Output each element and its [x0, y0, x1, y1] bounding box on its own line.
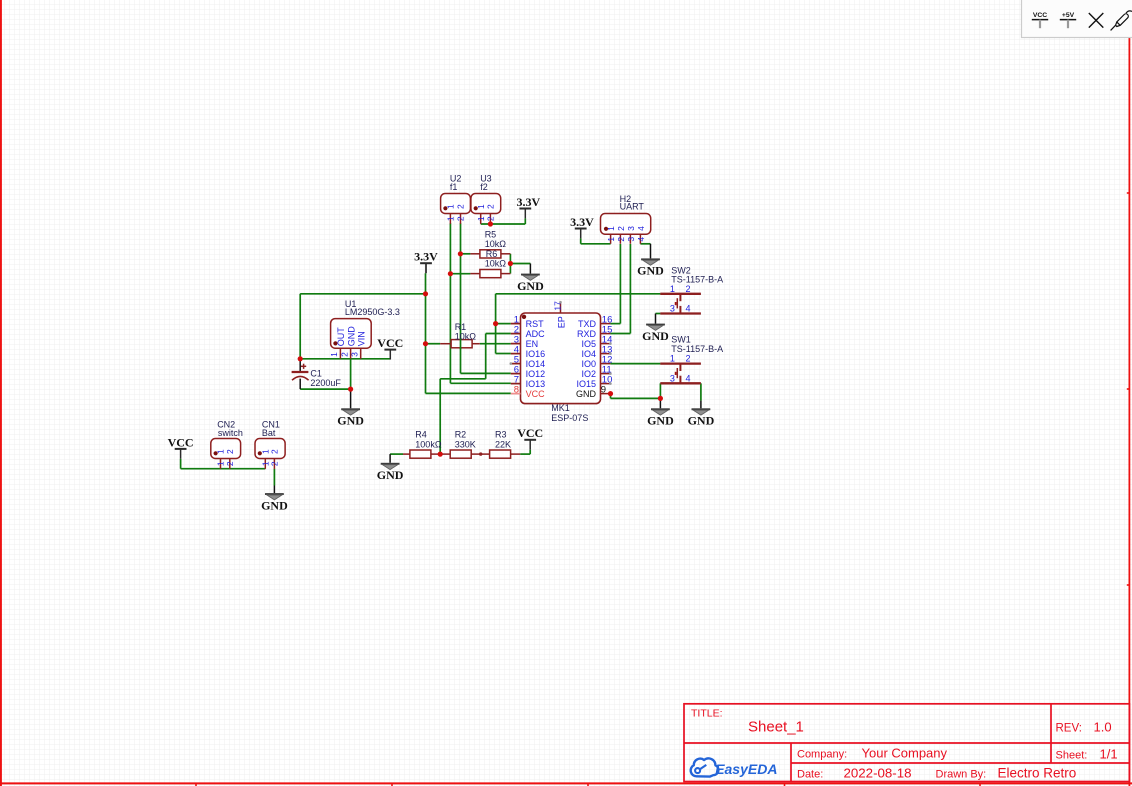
CN1 labels [262, 420, 280, 439]
ground at R5R6 [517, 274, 544, 293]
svg-text:Date:: Date: [797, 769, 823, 781]
lead SW1 left GND [659, 398, 661, 408]
svg-text:ESP-07S: ESP-07S [551, 413, 588, 423]
svg-text:3: 3 [626, 226, 636, 231]
SW2 pin numbers [670, 284, 691, 314]
svg-text:SW1: SW1 [671, 335, 691, 345]
H2 pin numbers outside [606, 237, 646, 242]
svg-text:RST: RST [526, 319, 545, 329]
svg-text:IO15: IO15 [576, 379, 596, 389]
svg-text:2: 2 [456, 216, 466, 221]
svg-text:EN: EN [526, 339, 539, 349]
svg-text:GND: GND [642, 329, 669, 343]
svg-text:GND: GND [688, 414, 715, 428]
U2 labels [450, 174, 462, 193]
svg-text:2: 2 [486, 216, 496, 221]
wire ESP IO0 pin 12 to SW1 pin 1 [610, 363, 660, 365]
svg-text:3.3V: 3.3V [414, 250, 438, 264]
C1 labels [310, 368, 341, 388]
MK1 left pin names [526, 319, 546, 399]
wire R5/R6 right vertical [509, 254, 511, 274]
lead SW2 GND [655, 314, 657, 324]
ground at R4 [377, 463, 404, 482]
U1 pin numbers 1 2 3 [329, 352, 359, 357]
svg-text:Sheet_1: Sheet_1 [748, 718, 804, 735]
svg-text:3.3V: 3.3V [516, 195, 540, 209]
svg-text:Your Company: Your Company [862, 746, 948, 761]
junction at R5 left [458, 251, 463, 256]
wire ESP GND to SW1 GND node [611, 397, 661, 399]
svg-text:10kΩ: 10kΩ [485, 239, 507, 249]
svg-text:4: 4 [685, 304, 690, 314]
wire 3.3V rail horizontal to U1 column [300, 293, 425, 295]
svg-text:GND: GND [576, 389, 597, 399]
svg-text:IO13: IO13 [526, 379, 546, 389]
junction 3.3V rail top [423, 291, 428, 296]
R4 labels [415, 430, 442, 450]
svg-text:REV:: REV: [1056, 722, 1082, 734]
svg-text:TXD: TXD [578, 319, 597, 329]
svg-text:2: 2 [486, 204, 496, 209]
svg-text:1.0: 1.0 [1094, 719, 1112, 734]
wire ESP ADC pin 2 branch [486, 333, 511, 335]
wire 3.3V flag to U3 [481, 223, 526, 225]
svg-text:1: 1 [670, 284, 675, 294]
junction at ESP GND pin9 [608, 391, 613, 396]
connector CN2 switch [211, 439, 241, 469]
wire R5 left [461, 253, 471, 255]
svg-text:2022-08-18: 2022-08-18 [844, 766, 912, 781]
svg-text:3: 3 [670, 304, 675, 314]
H2 pin numbers inside [606, 226, 646, 231]
lead CN1 GND [273, 486, 275, 494]
wire R6 left [450, 273, 470, 275]
svg-text:2: 2 [616, 237, 626, 242]
svg-text:f2: f2 [480, 182, 488, 192]
svg-text:IO14: IO14 [526, 359, 546, 369]
toolbar pencil icon [1111, 11, 1132, 31]
resistor R1 10k [440, 340, 480, 348]
wire VCC flag to CN2 [180, 459, 182, 469]
ground at SW1 right [688, 408, 715, 427]
wire to ESP IO16 pin 4 [496, 353, 511, 355]
svg-text:GND: GND [337, 414, 364, 428]
svg-text:Sheet:: Sheet: [1056, 750, 1088, 762]
lead C1 bottom [299, 379, 301, 390]
svg-text:1: 1 [606, 226, 616, 231]
resistor R4 100k [403, 450, 440, 458]
wire H2 pin 4 to GND [640, 243, 650, 245]
svg-text:EasyEDA: EasyEDA [715, 761, 777, 777]
SW1 labels [671, 335, 723, 355]
svg-text:Bat: Bat [262, 428, 276, 438]
SW1 pin numbers [670, 354, 691, 384]
ground at SW1 left [647, 408, 674, 427]
toolbar panel [1022, 0, 1132, 38]
svg-text:EP: EP [556, 316, 566, 328]
wire SW2 pin 3 stub [656, 313, 661, 315]
svg-text:4: 4 [636, 237, 646, 242]
svg-text:GND: GND [377, 468, 404, 482]
svg-text:ADC: ADC [526, 329, 546, 339]
revision [1056, 719, 1112, 734]
voltage regulator U1 LM2950G-3.3 [331, 319, 372, 359]
wire 3.3V flag drop left [425, 273, 427, 294]
toolbar VCC icon [1032, 12, 1048, 28]
lead R5R6 GND [529, 264, 531, 274]
svg-text:1: 1 [446, 216, 456, 221]
svg-text:UART: UART [620, 202, 645, 212]
svg-text:2: 2 [225, 449, 235, 454]
svg-text:IO5: IO5 [581, 339, 596, 349]
wire U1 output row [300, 358, 390, 360]
svg-text:3: 3 [670, 373, 675, 383]
ground at CN1 [261, 493, 288, 512]
junction at U1 output [298, 356, 303, 361]
svg-text:VCC: VCC [377, 336, 403, 350]
H2 labels [620, 194, 645, 212]
power flag VCC at CN2 [168, 435, 194, 459]
wire R4 left to GND corner [390, 453, 403, 455]
wire U1 column vertical [299, 294, 301, 359]
svg-text:VCC: VCC [168, 435, 194, 449]
svg-text:GND: GND [647, 414, 674, 428]
svg-text:GND: GND [346, 326, 356, 347]
svg-text:TS-1157-B-A: TS-1157-B-A [671, 344, 723, 354]
power flag 3.3V left [414, 250, 438, 274]
wire to ESP IO13 pin 7 [450, 382, 510, 384]
wire 3.3V flag to H2 pin 1 [580, 238, 582, 243]
wire R5/R6 to GND [510, 263, 530, 265]
svg-text:2: 2 [225, 461, 235, 466]
ground at H2 [637, 258, 664, 277]
svg-text:IO16: IO16 [526, 349, 546, 359]
svg-text:2: 2 [456, 204, 466, 209]
svg-text:2: 2 [616, 226, 626, 231]
sheet number [1056, 747, 1118, 762]
sheet border bottom [0, 782, 1132, 784]
svg-text:1: 1 [476, 216, 486, 221]
wire to ESP RST pin 1 [496, 323, 511, 325]
svg-text:GND: GND [517, 279, 544, 293]
MK1 right pin names [576, 319, 597, 399]
wire C1 bottom row [300, 388, 350, 390]
svg-text:Drawn By:: Drawn By: [936, 769, 987, 781]
svg-text:2: 2 [339, 352, 349, 357]
svg-text:IO2: IO2 [581, 369, 596, 379]
wire R3 right to VCC [520, 453, 530, 455]
sheet border ticks [196, 193, 1129, 786]
svg-text:4: 4 [685, 373, 690, 383]
svg-text:1: 1 [329, 352, 339, 357]
lead C1 top [299, 359, 301, 372]
wire H2 pin 3 to ESP RXD [629, 244, 631, 334]
company row [797, 746, 948, 761]
wire R1 right to ESP EN pin 3 [480, 343, 511, 345]
svg-text:R4: R4 [415, 430, 427, 440]
MK1 left pin numbers [514, 315, 519, 396]
lead R4 GND [389, 454, 391, 463]
svg-text:TITLE:: TITLE: [691, 708, 723, 720]
wire SW1 pin 4 drop [700, 383, 702, 400]
CN2 labels [217, 420, 243, 439]
fuse U3 f2 [471, 194, 501, 224]
resistor R2 330K [440, 450, 481, 458]
resistor R6 10k [470, 270, 510, 278]
svg-text:VCC: VCC [526, 389, 546, 399]
lead 3.3V left flag stub [425, 263, 427, 273]
svg-text:3: 3 [626, 237, 636, 242]
svg-text:C1: C1 [310, 368, 322, 378]
svg-text:GND: GND [637, 264, 664, 278]
junction small R2 R3 [479, 452, 482, 455]
svg-text:LM2950G-3.3: LM2950G-3.3 [345, 307, 400, 317]
power flag 3.3V right [570, 215, 594, 239]
svg-text:22K: 22K [495, 440, 511, 450]
R2 labels [455, 430, 476, 450]
svg-text:f1: f1 [450, 182, 458, 192]
title block frame [684, 704, 1129, 782]
junction 3.3V at R1 [423, 341, 428, 346]
svg-text:R2: R2 [455, 430, 467, 440]
svg-text:RXD: RXD [577, 329, 597, 339]
wire ESP GND pin 9 down [610, 394, 612, 399]
switch SW1 TS-1157-B-A [660, 364, 701, 384]
sheet border left [0, 0, 2, 786]
junction at SW1 GND [658, 396, 663, 401]
svg-text:VCC: VCC [1033, 12, 1047, 19]
lead SW1 right GND [700, 401, 702, 409]
MK1 EP pad pin 17 [552, 301, 566, 328]
svg-text:Electro Retro: Electro Retro [998, 766, 1077, 781]
wire SW1 pin 3 drop [659, 383, 661, 398]
svg-text:2: 2 [270, 449, 280, 454]
svg-text:330K: 330K [455, 440, 476, 450]
svg-text:IO12: IO12 [526, 369, 546, 379]
svg-text:VIN: VIN [357, 331, 367, 346]
lead C1 GND [350, 389, 352, 408]
SW2 labels [671, 265, 723, 284]
sheet border right [1128, 0, 1130, 786]
wire crossing R1 body [460, 339, 462, 349]
junction at C1 bottom [348, 387, 353, 392]
U1 labels [345, 299, 400, 317]
wire RST/IO16 to SW2 pin 1 [496, 293, 661, 295]
wire 3.3V rail vertical [425, 294, 427, 394]
svg-text:IO0: IO0 [581, 359, 596, 369]
svg-text:9: 9 [601, 385, 606, 396]
power flag VCC at R3 [517, 426, 543, 450]
capacitor C1 2200uF [292, 364, 309, 381]
R1 labels [455, 322, 477, 341]
svg-text:2: 2 [685, 284, 690, 294]
svg-text:1: 1 [446, 204, 456, 209]
unconnected pin tips [510, 301, 612, 385]
svg-text:1: 1 [670, 354, 675, 364]
wire RST/IO16 vertical [495, 294, 497, 354]
power flag 3.3V mid [516, 195, 540, 219]
svg-text:2: 2 [270, 461, 280, 466]
U1 pin names OUT GND VIN [336, 326, 367, 347]
svg-text:10kΩ: 10kΩ [455, 331, 477, 341]
ground at C1 [337, 408, 364, 427]
svg-text:3: 3 [350, 352, 360, 357]
wire 3.3V to ESP VCC pin 8 [426, 392, 511, 394]
power flag VCC at U1 [377, 336, 403, 360]
svg-text:IO4: IO4 [581, 349, 596, 359]
MK1 labels [551, 403, 588, 423]
resistor R5 10k [470, 250, 510, 258]
svg-text:10kΩ: 10kΩ [485, 258, 507, 268]
wire U1 GND pin down [350, 359, 352, 389]
svg-text:2: 2 [685, 354, 690, 364]
wire U2 pin1 vertical to IO13 [449, 223, 451, 383]
resistor R3 22K [481, 450, 521, 458]
svg-text:8: 8 [514, 385, 519, 396]
wire VCC row CN2 CN1 [181, 468, 266, 470]
ground at SW2 [642, 324, 669, 343]
svg-text:1: 1 [606, 237, 616, 242]
header H2 UART [601, 214, 651, 244]
svg-text:1: 1 [476, 204, 486, 209]
wire U2 pin2 vertical to IO12 [460, 223, 462, 373]
svg-text:3.3V: 3.3V [570, 215, 594, 229]
wire H2 pin 2 to ESP TXD [619, 244, 621, 324]
U3 labels [480, 174, 492, 193]
wire 3.3V to R1 left [426, 343, 441, 345]
svg-text:1/1: 1/1 [1100, 747, 1118, 762]
svg-text:VCC: VCC [517, 426, 543, 440]
R6 labels [485, 249, 507, 268]
svg-text:Company:: Company: [797, 749, 847, 761]
svg-text:TS-1157-B-A: TS-1157-B-A [671, 275, 723, 285]
junction at R6 left [448, 271, 453, 276]
toolbar delete icon [1089, 13, 1104, 28]
junction at R4 R2 [438, 452, 443, 457]
svg-text:100kΩ: 100kΩ [415, 440, 442, 450]
date row [797, 766, 1076, 781]
connector CN1 Bat [255, 439, 285, 469]
svg-text:+5V: +5V [1062, 12, 1075, 19]
toolbar +5V icon [1060, 12, 1076, 28]
svg-text:OUT: OUT [336, 327, 346, 347]
svg-text:GND: GND [261, 498, 288, 512]
junction at R5R6 right [508, 261, 513, 266]
svg-text:4: 4 [636, 226, 646, 231]
module MK1 ESP-07S [511, 302, 611, 403]
wire CN1 pin 2 down [273, 469, 275, 486]
R3 labels [495, 430, 511, 450]
switch SW2 TS-1157-B-A [660, 294, 701, 314]
MK1 right pin numbers [601, 315, 613, 396]
fuse U2 f1 [441, 194, 471, 224]
svg-text:2200uF: 2200uF [310, 378, 341, 388]
junction at U3 pin2 [488, 221, 493, 226]
junction at ESP RST [493, 321, 498, 326]
svg-text:MK1: MK1 [551, 403, 570, 413]
svg-text:R3: R3 [495, 430, 507, 440]
lead H2 GND [650, 244, 652, 259]
R5 labels [485, 230, 507, 249]
svg-text:switch: switch [218, 428, 243, 438]
wire to ESP IO12 pin 6 [461, 372, 511, 374]
EasyEDA logo [691, 758, 778, 777]
